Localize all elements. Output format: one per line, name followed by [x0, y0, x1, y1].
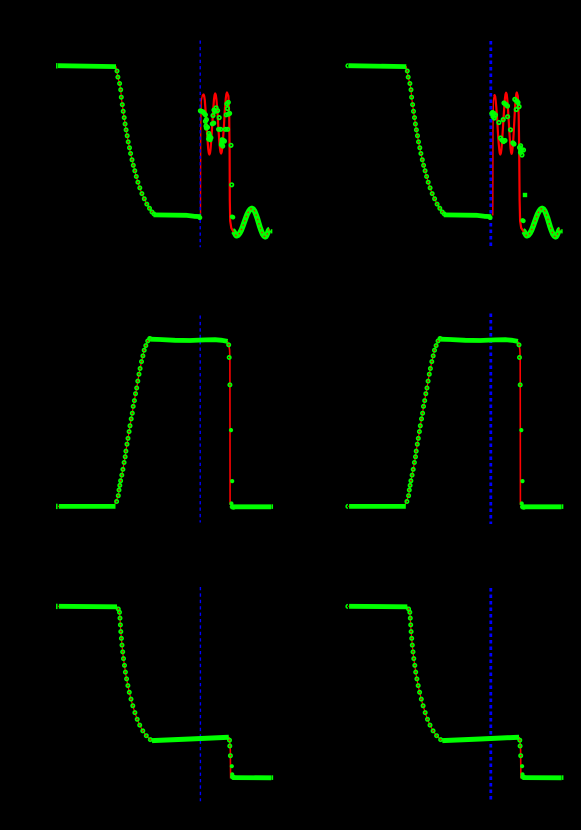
node: green lower-right plateau bar — [232, 504, 271, 509]
node: blue dashed reference line row3 right — [489, 588, 492, 800]
node: green markers on rising slope — [405, 337, 442, 503]
node: start tick marker — [346, 505, 348, 509]
wire: red contact/shock vertical — [519, 345, 520, 506]
node: green top plateau bar — [441, 339, 518, 341]
node: end tick marker — [561, 229, 563, 233]
node: green lower-left plateau bar — [59, 504, 116, 509]
wire: red dispersive shock oscillation burst — [202, 93, 270, 237]
node: green middle plateau bar — [442, 737, 519, 740]
node: green markers on expansion slope — [117, 607, 152, 741]
node: marker blob at plateau start — [231, 505, 235, 509]
wire: red bottom plateau underlay — [521, 777, 561, 779]
node: solid green outlier marker — [523, 193, 527, 197]
node: green lower-left plateau bar — [349, 504, 406, 509]
node: green bottom plateau bar — [232, 775, 271, 780]
node: green markers on rising slope — [115, 337, 152, 503]
wire: red exact-solution curve row2 — [348, 339, 519, 507]
node: end tick marker — [562, 775, 564, 780]
node: scattered green markers in oscillation zone — [490, 98, 525, 157]
node: green upper plateau bar — [348, 63, 406, 69]
node: start tick marker — [56, 504, 58, 509]
node: blue dashed reference line row1 right — [489, 41, 492, 247]
wire: red dotted line through sinusoid band — [233, 208, 270, 236]
wire: red bottom-right plateau underlay — [231, 506, 272, 508]
node: green marker at plateau end dip — [488, 216, 491, 219]
node: green lower plateau bar — [154, 215, 201, 217]
node: marker blob at bottom plateau start — [231, 775, 235, 779]
node: end tick marker — [271, 775, 273, 780]
node: blue dashed reference line row2 left — [199, 316, 201, 523]
node: green markers on expansion slope — [407, 607, 442, 741]
wire: row1R red exact-solution curve (main profile) — [348, 66, 491, 217]
wire: red exact-solution curve row3 — [58, 606, 229, 740]
node: end tick marker — [562, 504, 564, 509]
node: green marker blob at post-shock plateau level — [230, 215, 235, 220]
node: scattered green markers in oscillation zone — [199, 101, 234, 187]
node: green markers on step — [228, 739, 234, 777]
wire: red shock-front rise — [201, 96, 203, 215]
node: green bottom plateau bar — [523, 775, 562, 780]
node: green marker blob at post-shock plateau level — [520, 218, 525, 223]
node: green lower plateau bar — [444, 215, 491, 217]
node: green upper plateau bar — [58, 63, 116, 69]
wire: red dotted line through sinusoid band — [523, 208, 560, 236]
node: start tick marker — [346, 605, 348, 609]
node: end tick marker — [271, 229, 273, 233]
node: green lower-right plateau bar — [522, 504, 561, 509]
node: start tick marker — [346, 64, 348, 68]
node: marker blob at plateau start — [521, 505, 525, 509]
wire: red dispersive shock oscillation burst — [494, 93, 560, 237]
node: blue dashed reference line row2 right — [489, 314, 492, 525]
wire: green trailing sinusoid band — [233, 208, 270, 236]
wire: red bottom-right plateau underlay — [521, 506, 562, 508]
wire: red exact-solution curve row3 — [348, 606, 519, 740]
wire: row1L red exact-solution curve (main profile) — [58, 66, 201, 217]
node: green top plateau bar — [59, 604, 117, 609]
wire: red small shock vertical — [519, 737, 521, 779]
node: marker blob at bottom plateau start — [521, 775, 525, 779]
node: blue dashed reference line row1 left — [199, 41, 201, 248]
wire: green trailing sinusoid band — [523, 208, 560, 236]
node: start tick marker — [56, 63, 58, 68]
node: green markers on rarefaction slope — [406, 69, 446, 215]
node: green markers on step — [518, 739, 525, 777]
wire: red contact/shock vertical — [229, 345, 230, 506]
node: green markers on shock vertical — [517, 343, 524, 505]
node: green marker at plateau end dip — [198, 216, 201, 219]
node: green top plateau bar — [150, 339, 227, 341]
node: end tick marker — [271, 504, 273, 509]
node: green markers on shock vertical — [227, 343, 234, 505]
node: green markers on rarefaction slope — [115, 69, 155, 215]
wire: red bottom plateau underlay — [231, 777, 271, 779]
wire: red exact-solution curve row2 — [58, 339, 229, 507]
node: start tick marker — [56, 604, 58, 609]
node: green top plateau bar — [349, 604, 407, 609]
wire: red shock-front rise — [493, 96, 494, 215]
node: blue dashed reference line row3 left — [199, 587, 201, 801]
node: green middle plateau bar — [152, 737, 229, 740]
wire: red small shock vertical — [229, 737, 231, 779]
